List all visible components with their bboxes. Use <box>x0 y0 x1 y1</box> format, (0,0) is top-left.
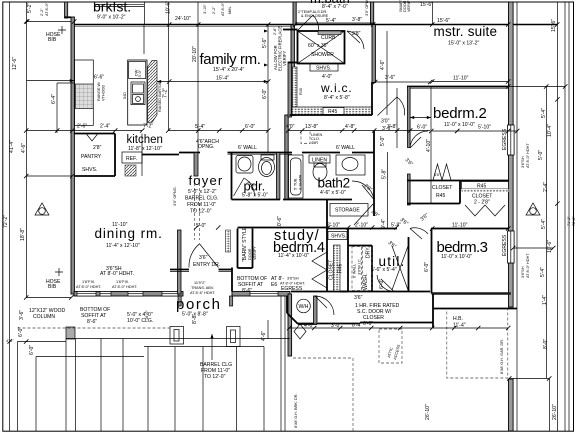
wall: kitchen south wall <box>142 154 179 156</box>
door: bedrm2 door arc <box>410 131 428 148</box>
svg-text:AT 8'-0" HDHT: AT 8'-0" HDHT <box>526 143 530 168</box>
door: bath2 door <box>352 181 374 200</box>
svg-text:bath2: bath2 <box>318 176 350 191</box>
marker: section marker right <box>526 203 540 215</box>
marker: bottom diamond marker <box>294 324 306 339</box>
door: m.bath entry door arc <box>298 15 319 31</box>
door: pdr door arc <box>234 178 255 196</box>
fixture: bath2 toilet <box>313 164 327 181</box>
wall: entry walls <box>170 269 189 271</box>
svg-text:AT 8'-0" HDHT.: AT 8'-0" HDHT. <box>280 282 305 286</box>
svg-text:6'-6": 6'-6" <box>94 75 104 81</box>
svg-text:AT 8'-6" HDHT.: AT 8'-6" HDHT. <box>190 291 215 295</box>
svg-text:pdr.: pdr. <box>244 179 266 194</box>
svg-text:6'-0": 6'-0" <box>262 89 268 99</box>
svg-text:AT 8'-0" HDHT.: AT 8'-0" HDHT. <box>76 285 101 289</box>
svg-text:CURB: CURB <box>321 35 336 41</box>
svg-text:3'-6": 3'-6" <box>385 75 395 81</box>
wire: mstr right dim line <box>508 86 565 88</box>
svg-text:mstr. suite: mstr. suite <box>434 24 498 39</box>
svg-text:15'-6": 15'-6" <box>437 18 450 24</box>
svg-text:18'-8": 18'-8" <box>20 228 26 241</box>
svg-text:REF.: REF. <box>126 156 137 162</box>
svg-text:bedrm.2: bedrm.2 <box>433 105 487 122</box>
fixture: linen <box>309 155 330 163</box>
svg-text:3'6": 3'6" <box>434 173 441 177</box>
svg-text:WASH.: WASH. <box>363 273 369 290</box>
svg-text:13'-8": 13'-8" <box>305 124 318 130</box>
wall: dining right wall <box>178 230 182 294</box>
svg-text:5'-0": 5'-0" <box>380 136 386 146</box>
svg-text:15'-0" x 13'-2": 15'-0" x 13'-2" <box>448 41 480 47</box>
svg-text:5' TUB: 5' TUB <box>294 178 298 190</box>
svg-text:OPNG.: OPNG. <box>198 144 214 150</box>
svg-text:2'8": 2'8" <box>352 31 361 37</box>
svg-text:foyer: foyer <box>189 173 224 188</box>
svg-text:72'-2": 72'-2" <box>3 215 9 228</box>
svg-text:10'-6": 10'-6" <box>277 216 283 229</box>
svg-text:5'-4": 5'-4" <box>326 18 336 24</box>
fixture: bath2 vanity <box>336 155 365 175</box>
wire: dashed soffit line <box>18 327 171 329</box>
svg-text:AT 8'-0" HDHT.: AT 8'-0" HDHT. <box>112 285 137 289</box>
svg-text:3'-8": 3'-8" <box>387 124 397 130</box>
svg-text:3'6"SH: 3'6"SH <box>287 277 299 281</box>
wall: wic bottom/right walls <box>290 114 373 116</box>
svg-text:RAISED BARTOP: RAISED BARTOP <box>158 81 162 112</box>
svg-text:3'6": 3'6" <box>354 295 363 301</box>
svg-text:5'-8" x 5'-0": 5'-8" x 5'-0" <box>242 193 268 199</box>
svg-text:kitchen: kitchen <box>127 134 163 146</box>
svg-text:VERIFY: VERIFY <box>407 0 411 12</box>
svg-text:6' WALL: 6' WALL <box>353 264 357 278</box>
svg-text:6'-0": 6'-0" <box>417 125 427 131</box>
bath2 fixtures <box>245 27 432 216</box>
svg-text:VTHOOD: VTHOOD <box>102 84 106 101</box>
hall south wall to garage <box>298 323 360 325</box>
wall: pdr left wall <box>231 153 233 200</box>
wall: family rm right wall <box>291 25 294 116</box>
svg-text:6'-6" x 5'-4": 6'-6" x 5'-4" <box>371 267 397 273</box>
svg-text:2 - 2'8": 2 - 2'8" <box>474 200 490 206</box>
wire: top dim line over brkfst <box>27 21 74 23</box>
garage dashed lines <box>293 309 558 432</box>
svg-text:R45: R45 <box>338 263 344 273</box>
svg-text:AT 8'-0" HDHT: AT 8'-0" HDHT <box>526 253 530 278</box>
svg-text:11'-0" x 10'-0": 11'-0" x 10'-0" <box>444 122 475 128</box>
fixture: pdr sink <box>236 156 253 174</box>
svg-text:26'-10": 26'-10" <box>425 404 431 420</box>
wire: bedrm2 left thin line <box>430 87 432 203</box>
svg-text:5'-4": 5'-4" <box>195 124 205 130</box>
svg-text:SHVS.: SHVS. <box>331 234 346 240</box>
wall: bath2/storage bottom <box>283 199 352 201</box>
svg-text:6'-0": 6'-0" <box>18 327 24 337</box>
svg-text:3'0" OPNG.: 3'0" OPNG. <box>365 0 369 16</box>
svg-text:2'-4": 2'-4" <box>100 124 110 130</box>
svg-text:5'-4": 5'-4" <box>540 267 546 277</box>
wire: dim line y=131 kitchen/foyer/bath rows <box>27 130 143 132</box>
svg-text:71'-2": 71'-2" <box>567 216 571 226</box>
porch columns and steps <box>18 327 291 357</box>
svg-text:CLOSET: CLOSET <box>329 260 335 280</box>
svg-text:LINEN: LINEN <box>312 158 327 164</box>
kitchen counters <box>75 60 148 130</box>
wire: driveway vertical lines <box>18 296 286 431</box>
wire: long upper wall line y=24.5 <box>74 24 558 26</box>
svg-text:8'X8' O.H. BRK. DR.: 8'X8' O.H. BRK. DR. <box>294 393 298 428</box>
wall: pdr right wall <box>277 153 280 200</box>
svg-text:2'-10": 2'-10" <box>355 223 368 229</box>
svg-text:9'-0" x 10'-2": 9'-0" x 10'-2" <box>97 15 126 21</box>
svg-text:STORAGE: STORAGE <box>335 208 360 214</box>
svg-text:2'-6": 2'-6" <box>77 124 87 130</box>
svg-text:9'-4": 9'-4" <box>381 219 387 229</box>
svg-text:6' WALL: 6' WALL <box>336 145 355 151</box>
svg-text:8'-8": 8'-8" <box>192 314 198 324</box>
svg-text:15'-4": 15'-4" <box>216 76 229 82</box>
wire: vertical dim ext lines top <box>168 2 170 130</box>
door: m.bath shower door arc <box>347 31 364 49</box>
wall: mstr suite bottom wall <box>407 86 509 88</box>
wall: hall wall x=409 upper <box>408 87 411 148</box>
svg-text:5'-4": 5'-4" <box>541 108 547 118</box>
arrows on main dim lines <box>264 30 268 67</box>
svg-text:VERIFY: VERIFY <box>282 51 287 66</box>
wire: top mid dim lines <box>295 22 375 24</box>
svg-text:4'-0": 4'-0" <box>322 74 332 80</box>
svg-text:BIB: BIB <box>48 284 57 290</box>
fixture: water heater <box>297 299 311 313</box>
raised bartop <box>143 61 169 130</box>
svg-text:3'0"W.I.C.: 3'0"W.I.C. <box>358 258 362 275</box>
svg-text:1'-4": 1'-4" <box>542 295 548 305</box>
svg-text:5'-0": 5'-0" <box>538 150 544 160</box>
svg-text:11'-4" x 12'-10": 11'-4" x 12'-10" <box>106 243 140 249</box>
wall: study right wall going down to garage <box>288 294 292 356</box>
svg-text:R45: R45 <box>477 184 487 190</box>
svg-text:SHVS.: SHVS. <box>316 66 331 72</box>
column: porch column right <box>227 327 241 347</box>
svg-text:R45: R45 <box>436 193 446 199</box>
fixture: pdr toilet <box>259 155 275 177</box>
svg-text:2'-2": 2'-2" <box>40 8 44 16</box>
svg-text:3'6"SH: 3'6"SH <box>521 156 525 168</box>
wire: left dimension extension lines <box>9 2 11 431</box>
svg-text:SHOWER: SHOWER <box>311 52 334 58</box>
svg-text:RANGE W/: RANGE W/ <box>97 81 101 101</box>
fixture: washer dryer dashed <box>352 247 362 291</box>
svg-text:7'-2": 7'-2" <box>163 88 169 98</box>
svg-text:CLOSET: CLOSET <box>432 185 452 191</box>
svg-text:4'-6": 4'-6" <box>261 331 267 341</box>
svg-text:AT 8'-0" HDHT.: AT 8'-0" HDHT. <box>100 271 134 277</box>
window: dining windows <box>77 292 96 297</box>
wall: study bottom wall <box>291 291 348 293</box>
wall: porch side stubs <box>178 296 181 306</box>
garage door header dashed <box>447 309 508 379</box>
wall: bedrm3 top wall <box>431 228 509 230</box>
door: entry door triangle <box>189 244 219 268</box>
fixture: bath2 tub <box>289 155 304 198</box>
wall: m.bath right wall top <box>371 2 374 24</box>
wall: study right wall <box>326 200 328 292</box>
door: mstr suite entry arc <box>378 97 405 116</box>
svg-text:SHVS.: SHVS. <box>82 167 97 173</box>
svg-text:3'0" OPNG.: 3'0" OPNG. <box>173 186 177 206</box>
svg-text:4'-6" x 5'-0": 4'-6" x 5'-0" <box>320 190 346 196</box>
svg-text:3'-0": 3'-0" <box>138 69 142 77</box>
svg-text:6'-0": 6'-0" <box>245 124 255 130</box>
svg-text:11'-10": 11'-10" <box>453 76 469 82</box>
utility room walls <box>327 228 397 230</box>
wall: bath2 right wall <box>373 131 375 153</box>
pantry <box>74 134 142 177</box>
svg-text:E6: E6 <box>271 282 277 288</box>
wall: brkfst top-left corner <box>65 2 68 18</box>
wall: garage step line <box>433 308 517 310</box>
svg-text:DOOR: DOOR <box>248 248 252 260</box>
svg-text:5'-0" x 12'-2": 5'-0" x 12'-2" <box>188 189 217 195</box>
wall: foyer left pier + dashed barrel clg <box>194 153 198 177</box>
svg-text:4'-6": 4'-6" <box>380 60 386 70</box>
svg-text:w.i.c.: w.i.c. <box>320 81 352 95</box>
wire: porch front edge lines <box>66 338 290 340</box>
svg-text:10'-6": 10'-6" <box>166 1 172 14</box>
svg-text:brkfst.: brkfst. <box>93 0 131 15</box>
window: bedrm2 egress window <box>508 125 515 155</box>
svg-text:20'-10": 20'-10" <box>192 46 198 62</box>
svg-text:5'-8": 5'-8" <box>382 169 388 179</box>
wic closet hatch band <box>292 107 372 115</box>
door: bedrm3 closet bifold <box>465 205 505 216</box>
svg-text:11'-0" x 10'-0": 11'-0" x 10'-0" <box>441 254 472 260</box>
svg-text:10'-0" CLG.: 10'-0" CLG. <box>127 318 153 324</box>
svg-text:PANTRY: PANTRY <box>81 154 102 160</box>
marker: section marker left <box>35 203 49 215</box>
svg-text:8'-6": 8'-6" <box>242 288 252 294</box>
wall: barn door closet right of entry <box>237 229 239 269</box>
study closet hatch band <box>334 245 341 291</box>
svg-text:3'-6": 3'-6" <box>19 310 25 320</box>
svg-text:11'-4" x 10'-0": 11'-4" x 10'-0" <box>278 253 309 259</box>
closets row between bedrm2 and bedrm3 <box>407 164 509 216</box>
svg-text:COLUMN: COLUMN <box>33 314 55 320</box>
svg-text:26'-10": 26'-10" <box>552 404 558 420</box>
svg-text:4'-6": 4'-6" <box>21 143 27 153</box>
svg-text:6' WALL: 6' WALL <box>238 145 257 151</box>
wire: garage door dim <box>509 378 549 380</box>
svg-text:porch: porch <box>176 296 222 313</box>
wall: foyer 6' wall row <box>179 152 200 154</box>
storage box <box>330 204 368 217</box>
shower m.bath <box>298 31 345 64</box>
wall: dining bottom wall with windows <box>74 292 183 297</box>
svg-text:6'-6": 6'-6" <box>363 321 373 327</box>
svg-text:8'-4" x 5'-8": 8'-4" x 5'-8" <box>324 95 350 101</box>
svg-text:2'-8": 2'-8" <box>273 27 277 35</box>
svg-text:5'-4": 5'-4" <box>541 219 547 229</box>
svg-text:R45: R45 <box>299 88 303 95</box>
door: util door arc <box>377 275 394 292</box>
svg-text:8'-6": 8'-6" <box>87 319 97 325</box>
wire: family dim line <box>27 80 75 82</box>
barn door hatch band <box>226 230 231 252</box>
svg-text:4'-8": 4'-8" <box>345 124 355 130</box>
svg-text:1'6"FIX.: 1'6"FIX. <box>82 280 95 284</box>
svg-text:11'-10": 11'-10" <box>452 223 468 229</box>
door: bedrm2 closet bifold <box>433 164 451 180</box>
svg-text:24'-10": 24'-10" <box>175 16 191 22</box>
svg-text:5'-10": 5'-10" <box>478 125 491 131</box>
wall: wic right / mstr left gray wall <box>372 25 375 83</box>
svg-text:& SHWR: & SHWR <box>299 175 303 190</box>
wire: right side long vertical lines <box>516 2 518 431</box>
svg-text:2'-10": 2'-10" <box>327 223 340 229</box>
svg-text:12'-6": 12'-6" <box>12 57 18 70</box>
wall: study top wall <box>238 227 328 229</box>
wire: garage top dim line <box>289 327 508 329</box>
shelves under shower <box>310 64 338 72</box>
column: wood column <box>66 327 75 339</box>
svg-text:54D: 54D <box>123 92 127 99</box>
svg-text:family rm.: family rm. <box>200 51 261 68</box>
svg-text:6'-0": 6'-0" <box>29 345 35 355</box>
svg-text:EGRESS: EGRESS <box>502 234 508 256</box>
svg-text:m.bath: m.bath <box>310 0 350 6</box>
wall: hall wall x=409 lower <box>408 174 411 205</box>
svg-text:2'8": 2'8" <box>93 145 102 151</box>
wall: bedrm3 left wall <box>431 229 433 294</box>
svg-text:45R: 45R <box>311 141 318 145</box>
svg-text:10'-4": 10'-4" <box>547 124 553 137</box>
svg-text:H.B.: H.B. <box>453 316 463 322</box>
svg-text:3'6"SH: 3'6"SH <box>521 266 525 278</box>
svg-text:dining rm.: dining rm. <box>95 226 163 241</box>
shelf box util <box>328 232 347 240</box>
svg-text:MIN.: MIN. <box>228 6 232 14</box>
wall: pdr bottom wall <box>232 199 281 201</box>
svg-text:15'-6": 15'-6" <box>420 2 433 8</box>
svg-text:TO 12'-0": TO 12'-0" <box>204 374 226 380</box>
wire: extra dim lines <box>27 175 73 177</box>
door: hall-garage fire door <box>315 296 334 315</box>
svg-text:60" x 36": 60" x 36" <box>308 43 329 49</box>
svg-text:TRANS. ABV.: TRANS. ABV. <box>191 286 214 290</box>
wall: wic left wall <box>288 62 292 117</box>
wall: right exterior thick gray wall segments <box>509 2 514 125</box>
svg-text:FROM 11'-0": FROM 11'-0" <box>187 202 216 208</box>
svg-text:DRY.: DRY. <box>366 247 372 258</box>
svg-text:1'6"FIX.: 1'6"FIX. <box>116 280 129 284</box>
svg-text:2'-2": 2'-2" <box>212 6 216 14</box>
svg-text:2'-4": 2'-4" <box>543 182 549 192</box>
wall: garage top wall right part <box>360 322 433 324</box>
svg-text:4'-0": 4'-0" <box>304 323 314 329</box>
svg-text:W/H: W/H <box>299 304 309 310</box>
door: util hall double doors <box>392 246 408 290</box>
door: bedrm3 door arc <box>410 228 428 239</box>
wall: bedrm3 bottom wall <box>432 292 511 294</box>
wall: left exterior wall <box>71 17 74 294</box>
svg-text:41'-4": 41'-4" <box>9 140 15 153</box>
svg-text:6'-0": 6'-0" <box>424 262 430 272</box>
svg-text:8'-0": 8'-0" <box>543 339 549 349</box>
svg-text:6'-0": 6'-0" <box>379 279 385 289</box>
door: study closet bifold <box>312 252 327 288</box>
svg-text:6'-4": 6'-4" <box>51 94 57 104</box>
svg-text:ENTRY DR.: ENTRY DR. <box>193 262 220 268</box>
svg-text:AT 8'-0": AT 8'-0" <box>221 2 225 16</box>
svg-text:VERIFY: VERIFY <box>253 246 257 260</box>
svg-text:3'6": 3'6" <box>199 255 208 261</box>
svg-text:15'-4" x 20'-4": 15'-4" x 20'-4" <box>213 67 245 73</box>
svg-text:3'-8": 3'-8" <box>352 17 362 23</box>
svg-text:10'-6": 10'-6" <box>547 240 553 253</box>
svg-text:11'-10": 11'-10" <box>112 222 128 228</box>
svg-text:8'X8' O.H. GAR. DR.: 8'X8' O.H. GAR. DR. <box>500 339 504 374</box>
wall: m.bath left wall top <box>293 2 296 25</box>
svg-text:11'-8" x 12'-10": 11'-8" x 12'-10" <box>128 146 162 152</box>
svg-text:4'0": 4'0" <box>286 124 295 130</box>
svg-text:72'-2": 72'-2" <box>572 216 576 226</box>
svg-text:4'-10": 4'-10" <box>426 139 432 152</box>
svg-text:BARREL CLG.: BARREL CLG. <box>185 196 219 202</box>
attic access dashed <box>379 329 402 363</box>
column: porch column left <box>170 327 184 345</box>
svg-text:11'9"2": 11'9"2" <box>194 281 206 285</box>
closet rod: wic left band <box>293 67 298 107</box>
svg-text:BIB: BIB <box>48 37 57 43</box>
svg-text:3'-10": 3'-10" <box>203 4 207 14</box>
svg-text:TO 12'-0": TO 12'-0" <box>190 209 212 215</box>
wic linen clo <box>301 131 310 144</box>
svg-text:5'-6": 5'-6" <box>262 38 268 48</box>
window: bedrm3 egress window <box>508 231 515 263</box>
svg-text:8'-4": 8'-4" <box>352 323 362 329</box>
svg-text:5'-2": 5'-2" <box>27 3 33 13</box>
wall: porch right wall + study front <box>232 292 290 297</box>
svg-text:AT 8'-0": AT 8'-0" <box>45 2 49 16</box>
svg-text:EGRESS: EGRESS <box>502 128 508 150</box>
svg-text:EGRESS: EGRESS <box>281 286 303 292</box>
